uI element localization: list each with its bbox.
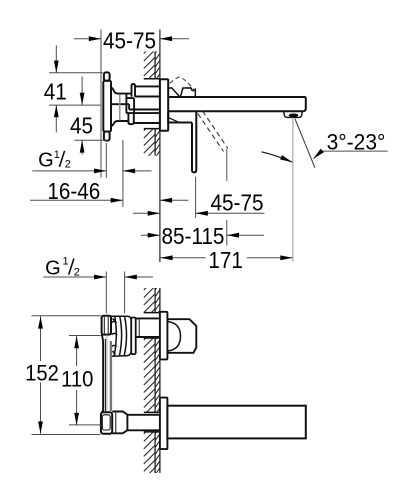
break-out dashed arc [170,77,196,92]
svg-text:1: 1 [63,256,69,268]
wall hatch (bottom drawing) [144,279,160,479]
upper port tab [132,84,136,97]
wall opening edges [144,79,160,129]
dimension 41 [49,45,103,132]
connecting arm [102,335,104,413]
aerator outlet [289,114,299,118]
valve body internal line [119,94,121,120]
stream reference line [292,118,294,262]
svg-text:3°-23°: 3°-23° [327,129,386,155]
svg-text:16-46: 16-46 [47,178,100,204]
lower port tab [128,113,133,124]
wall plaster line [154,52,156,156]
svg-text:1: 1 [54,149,60,161]
cartridge housing [111,316,131,356]
svg-text:171: 171 [208,247,243,273]
svg-text:85-115: 85-115 [162,223,225,249]
stub dome arc [167,322,180,352]
svg-text:G: G [38,149,54,171]
lower port block inner [102,415,110,430]
wall opening edges (bottom) [144,313,160,432]
dimension G 1/2 (top) [32,140,151,207]
lower port block [101,412,112,434]
svg-text:G: G [45,257,61,279]
cartridge ring [131,318,136,355]
dimension 152 [32,316,102,435]
svg-text:152: 152 [25,362,59,386]
spout base chamfer [169,118,179,123]
swivel arc arrow [262,152,293,162]
svg-text:45: 45 [70,112,93,138]
svg-text:110: 110 [61,368,93,392]
dimension 45 [74,77,108,155]
dimension 171 [160,257,292,259]
dimension 85-115 [141,149,264,246]
dimension G 1/2 (bottom) [43,272,153,314]
break-out squiggle (upper stub) [169,88,196,98]
spout base block [168,111,192,122]
wall plaster line (bottom) [154,288,156,473]
svg-text:45-75: 45-75 [103,27,156,53]
upper port block [102,316,111,335]
svg-text:41: 41 [44,79,67,105]
wall face line / extension [159,30,161,263]
upper escutcheon strip [160,312,168,360]
spout [168,97,306,111]
valve flange plate (in-wall body) [103,72,111,140]
dimension 45-75 (top) [74,30,189,178]
angle leader diagonal [295,119,315,168]
lever handle (closed) [192,111,196,172]
svg-text:2: 2 [74,267,80,279]
lever handle open (dashed) [198,111,228,152]
spout stub (broken) top view [167,319,196,353]
dimension 45-75 (second) [133,177,264,218]
svg-text:45-75: 45-75 [211,190,264,216]
valve body profile [111,88,134,127]
upper supply pipe through wall [135,86,160,96]
lower supply pipe through wall [126,110,159,124]
aerator [284,111,303,117]
upper pipe (bottom drawing) [136,318,160,337]
angle label leader + arrow [313,151,387,159]
lower escutcheon strip [160,398,168,450]
spout (plan view) [167,406,305,439]
dimension 110 [69,336,101,426]
wall hatch (top drawing) [144,42,160,160]
dimension 16-46 [30,199,188,201]
upper port block inner [104,317,108,334]
wall face line (bottom) [159,288,161,473]
escutcheon plate (room side) [160,79,168,130]
svg-text:2: 2 [65,159,71,171]
lower pipe (bottom drawing) [127,415,159,431]
lower union nut [112,412,127,434]
